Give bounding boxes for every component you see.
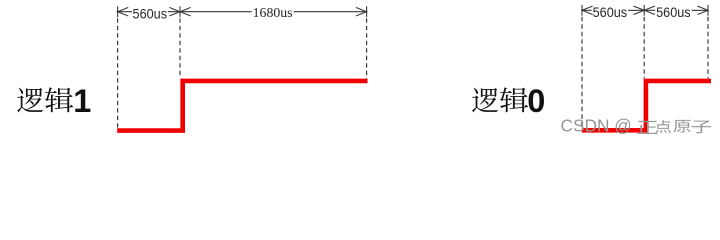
svg-text:0: 0 xyxy=(527,83,545,119)
svg-text:560us: 560us xyxy=(593,5,628,20)
svg-text:1680us: 1680us xyxy=(253,5,293,20)
svg-text:560us: 560us xyxy=(656,5,691,20)
svg-text:CSDN @: CSDN @ xyxy=(561,116,632,136)
svg-text:1: 1 xyxy=(73,83,91,119)
svg-text:560us: 560us xyxy=(133,6,168,21)
